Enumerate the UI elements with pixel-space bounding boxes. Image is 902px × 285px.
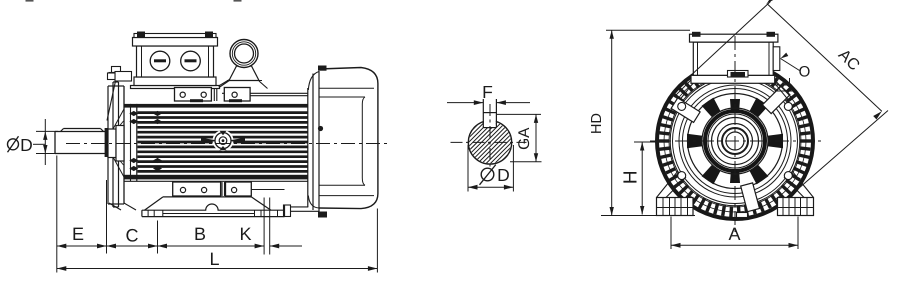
section view: centerlines xyxy=(451,104,527,169)
dimension C xyxy=(107,226,158,249)
svg-text:O: O xyxy=(799,64,811,81)
dimension GA xyxy=(497,114,542,161)
front view: bottom drain tab xyxy=(737,213,748,218)
side view: shaft key xyxy=(61,129,104,132)
side view: terminal box xyxy=(131,32,220,89)
svg-text:D: D xyxy=(497,165,510,185)
svg-text:L: L xyxy=(209,249,219,269)
dimension K xyxy=(239,224,302,248)
section view: shaft circle with hatching xyxy=(421,112,558,172)
front view: hub circles xyxy=(702,108,768,174)
dimension L xyxy=(57,249,378,271)
side view: front end shield xyxy=(108,67,136,211)
svg-text:F: F xyxy=(482,82,493,102)
side view: bearing cap at shaft xyxy=(108,126,124,162)
front view: centerlines xyxy=(650,36,823,233)
dimension AC xyxy=(680,0,888,195)
svg-text:E: E xyxy=(72,224,84,244)
front view: clip tabs xyxy=(671,86,790,212)
side view: shaft shoulder dark bar xyxy=(105,128,109,157)
top edge speck right xyxy=(234,0,242,2)
svg-text:K: K xyxy=(239,224,251,244)
dimension shaft diameter lines xyxy=(36,119,58,165)
side view: finned body xyxy=(124,88,308,207)
top edge speck left xyxy=(26,0,34,2)
side view: bearing dark blob xyxy=(117,134,125,153)
dimension B xyxy=(158,224,265,248)
front view: outer finned ring xyxy=(657,63,813,219)
front view: radial spokes xyxy=(687,98,783,185)
side view: grease boss on body xyxy=(201,130,245,151)
label O with leader xyxy=(781,53,811,81)
side view: foot bolt hole K lines xyxy=(264,198,270,255)
front view: feet xyxy=(601,171,814,216)
dimension HD xyxy=(589,30,690,215)
side view: fin break marks xyxy=(129,111,162,171)
svg-text:H: H xyxy=(621,170,642,184)
side view: top mounting plates xyxy=(175,88,308,103)
dimension extension lines bottom xyxy=(57,156,378,273)
dimension F xyxy=(447,82,530,105)
side view: terminal box plugs xyxy=(150,51,200,71)
side view: fan cover xyxy=(284,66,378,218)
front view: terminal box xyxy=(674,32,794,100)
section view: keyway slot and key xyxy=(483,99,496,128)
svg-text:GA: GA xyxy=(516,127,533,150)
side view: end shield radial ribs xyxy=(112,109,124,177)
dimension shaft diameter label xyxy=(8,135,46,155)
dimension section diameter D xyxy=(468,145,513,192)
side view: motor shaft xyxy=(55,132,108,154)
dimension E xyxy=(57,224,107,248)
svg-text:A: A xyxy=(728,224,740,244)
svg-text:C: C xyxy=(126,226,139,246)
side view: center axis line xyxy=(66,143,390,145)
side view: lifting eye bolt xyxy=(218,40,267,89)
svg-text:B: B xyxy=(194,224,206,244)
front view: end shield circles xyxy=(669,75,801,207)
dimension H xyxy=(621,142,661,215)
side view: box left conduit boss xyxy=(107,72,132,121)
side view: mounting feet xyxy=(142,182,285,217)
front view: bolt lugs xyxy=(678,102,793,179)
svg-text:D: D xyxy=(20,135,33,155)
svg-text:HD: HD xyxy=(589,113,605,134)
dimension A xyxy=(671,217,798,250)
